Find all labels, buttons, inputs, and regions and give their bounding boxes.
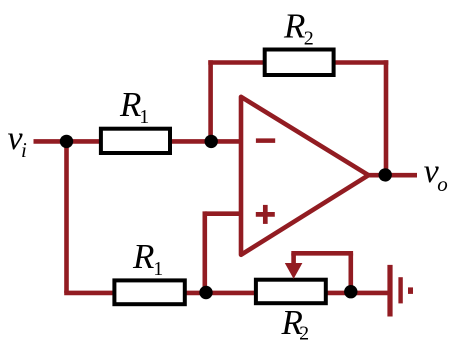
svg-text:1: 1 xyxy=(139,106,149,128)
svg-text:o: o xyxy=(437,172,448,196)
resistor R1 top box xyxy=(101,129,170,153)
wire wiper horizontal xyxy=(291,251,353,256)
wire output lead xyxy=(366,173,417,178)
svg-text:R: R xyxy=(119,85,141,124)
wire wiper vertical down to node xyxy=(348,253,353,292)
node label v_o xyxy=(424,153,448,196)
resistor R2 top label xyxy=(283,6,314,49)
wire vi lead xyxy=(34,139,102,144)
node junction bottom xyxy=(199,286,212,299)
svg-text:1: 1 xyxy=(153,258,163,280)
potentiometer wiper arrow xyxy=(285,253,303,279)
op-amp inverting input minus sign xyxy=(256,138,275,143)
wire feedback top horizontal to R2 xyxy=(208,60,266,65)
wire feedback vertical up from inverting node xyxy=(208,60,213,141)
ground bar 2 xyxy=(398,277,402,303)
ground bar 3 xyxy=(408,287,413,294)
node junction input xyxy=(60,135,73,148)
svg-text:R: R xyxy=(132,237,154,276)
wire bottom horizontal R1 to potentiometer xyxy=(184,291,258,296)
node junction output xyxy=(379,168,392,181)
wire right vertical down to output node xyxy=(384,60,389,175)
wire noninverting input horizontal xyxy=(205,211,242,216)
svg-text:2: 2 xyxy=(304,27,314,49)
wire left vertical from input node down xyxy=(64,141,69,293)
node junction inverting input xyxy=(205,135,218,148)
svg-text:i: i xyxy=(21,138,27,162)
potentiometer R2 box xyxy=(256,280,326,304)
node label v_i xyxy=(8,120,28,162)
svg-text:R: R xyxy=(283,6,305,45)
resistor R1 top label xyxy=(119,85,149,128)
wire noninverting vertical down to bottom node xyxy=(203,211,208,293)
svg-text:2: 2 xyxy=(299,323,309,345)
potentiometer R2 label xyxy=(281,303,310,345)
resistor R1 bottom label xyxy=(132,237,163,280)
resistor R1 bottom box xyxy=(114,280,184,304)
node junction wiper xyxy=(344,285,357,298)
resistor R2 top box xyxy=(265,50,334,76)
wire R1 top to inverting node xyxy=(168,139,242,144)
op-amp U1 triangle xyxy=(241,97,369,255)
ground bar 1 xyxy=(387,265,392,317)
wire R2 top to right corner xyxy=(332,60,388,65)
op-amp noninverting input plus sign xyxy=(256,205,275,224)
wire bottom-left horizontal to R1 bottom xyxy=(64,291,116,296)
wire potentiometer to ground xyxy=(325,291,388,296)
